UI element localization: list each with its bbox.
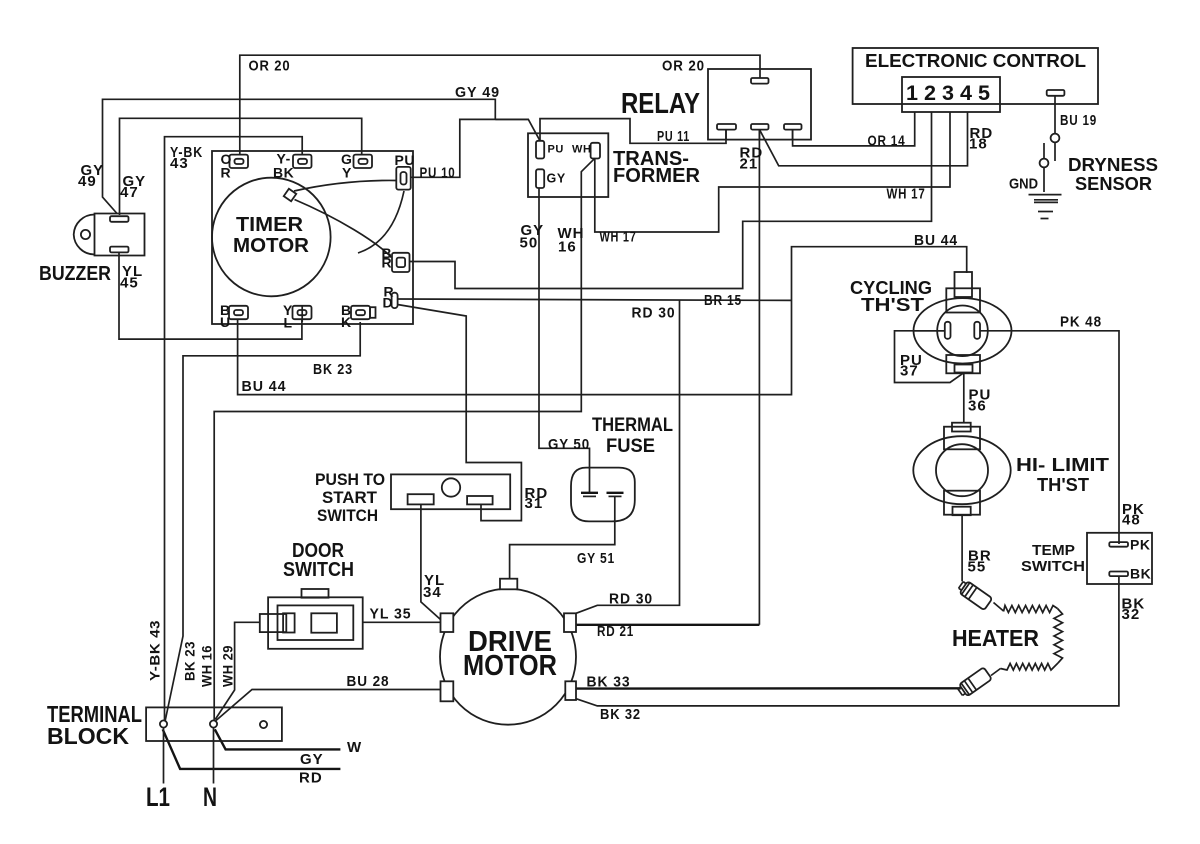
- svg-text:R: R: [382, 255, 393, 271]
- svg-text:GY: GY: [547, 172, 566, 186]
- svg-text:BR 15: BR 15: [704, 292, 742, 309]
- svg-text:RD 30: RD 30: [609, 591, 653, 608]
- svg-text:ELECTRONIC CONTROL: ELECTRONIC CONTROL: [865, 51, 1086, 71]
- svg-text:FUSE: FUSE: [606, 436, 655, 457]
- svg-text:PK 48: PK 48: [1060, 314, 1102, 331]
- svg-text:K: K: [341, 314, 352, 330]
- svg-text:BK 23: BK 23: [182, 641, 198, 681]
- svg-text:50: 50: [520, 235, 539, 252]
- svg-text:43: 43: [170, 155, 189, 172]
- svg-text:START: START: [322, 488, 378, 507]
- svg-text:1 2 3 4 5: 1 2 3 4 5: [906, 82, 990, 105]
- svg-text:47: 47: [120, 184, 139, 201]
- svg-text:BU 19: BU 19: [1060, 112, 1097, 129]
- svg-text:Y: Y: [342, 165, 352, 181]
- svg-text:D: D: [383, 295, 394, 311]
- svg-text:U: U: [220, 314, 231, 330]
- svg-text:SWITCH: SWITCH: [283, 559, 354, 581]
- svg-text:SWITCH: SWITCH: [1021, 558, 1085, 575]
- svg-text:18: 18: [969, 136, 988, 153]
- svg-text:PUSH TO: PUSH TO: [315, 470, 385, 489]
- svg-text:TH'ST: TH'ST: [1037, 475, 1089, 495]
- svg-text:37: 37: [900, 363, 919, 380]
- svg-text:W: W: [347, 739, 362, 756]
- svg-text:BK 23: BK 23: [313, 361, 353, 378]
- svg-text:RELAY: RELAY: [621, 88, 700, 120]
- svg-text:55: 55: [968, 559, 987, 576]
- svg-text:OR 20: OR 20: [662, 58, 705, 75]
- svg-text:MOTOR: MOTOR: [233, 235, 310, 257]
- svg-text:PU 11: PU 11: [657, 128, 690, 145]
- svg-text:GY 50: GY 50: [548, 436, 590, 453]
- svg-text:HEATER: HEATER: [952, 625, 1039, 651]
- svg-text:SENSOR: SENSOR: [1075, 174, 1152, 194]
- svg-text:WH 16: WH 16: [199, 645, 215, 687]
- svg-text:WH 17: WH 17: [600, 229, 637, 246]
- svg-text:WH 17: WH 17: [887, 186, 926, 203]
- svg-text:PU: PU: [395, 152, 415, 168]
- svg-text:OR 14: OR 14: [868, 132, 906, 149]
- svg-text:21: 21: [740, 156, 759, 173]
- svg-text:WH 29: WH 29: [220, 645, 236, 687]
- svg-text:BU 44: BU 44: [242, 378, 287, 395]
- svg-text:49: 49: [78, 173, 97, 190]
- svg-text:GY 49: GY 49: [455, 84, 500, 101]
- svg-text:16: 16: [558, 239, 577, 256]
- svg-text:34: 34: [423, 584, 442, 601]
- svg-text:L1: L1: [146, 782, 170, 812]
- svg-text:BLOCK: BLOCK: [47, 723, 129, 749]
- svg-text:PU: PU: [548, 144, 564, 156]
- svg-text:GY 51: GY 51: [577, 550, 615, 567]
- svg-text:31: 31: [525, 495, 544, 512]
- svg-text:BK: BK: [273, 165, 294, 181]
- svg-text:DRYNESS: DRYNESS: [1068, 155, 1158, 175]
- svg-text:Y-BK 43: Y-BK 43: [147, 620, 163, 681]
- svg-text:GND: GND: [1009, 176, 1038, 193]
- svg-text:THERMAL: THERMAL: [592, 415, 673, 436]
- svg-text:SWITCH: SWITCH: [317, 506, 378, 525]
- svg-text:BK: BK: [1130, 566, 1151, 582]
- svg-text:TIMER: TIMER: [236, 214, 304, 236]
- svg-text:R: R: [221, 165, 232, 181]
- svg-text:GY: GY: [300, 751, 324, 768]
- svg-text:BK 33: BK 33: [587, 674, 631, 691]
- svg-text:BU 28: BU 28: [347, 673, 390, 690]
- svg-text:L: L: [284, 315, 293, 331]
- svg-text:45: 45: [120, 275, 139, 292]
- svg-text:OR 20: OR 20: [249, 58, 291, 75]
- svg-text:RD 30: RD 30: [632, 305, 676, 322]
- svg-text:BK 32: BK 32: [600, 706, 641, 723]
- svg-text:HI- LIMIT: HI- LIMIT: [1016, 455, 1109, 475]
- svg-text:PK: PK: [1130, 537, 1150, 553]
- svg-text:BUZZER: BUZZER: [39, 263, 111, 285]
- svg-text:RD 21: RD 21: [597, 623, 634, 640]
- svg-text:N: N: [203, 782, 217, 812]
- svg-text:36: 36: [968, 398, 987, 415]
- svg-text:32: 32: [1122, 606, 1141, 623]
- svg-text:PU 10: PU 10: [420, 164, 456, 181]
- svg-text:FORMER: FORMER: [613, 165, 701, 187]
- svg-text:48: 48: [1122, 512, 1141, 529]
- svg-text:WH: WH: [572, 144, 592, 156]
- svg-text:TH'ST: TH'ST: [861, 295, 924, 315]
- svg-text:RD: RD: [299, 770, 323, 787]
- svg-text:MOTOR: MOTOR: [463, 650, 557, 682]
- svg-text:YL 35: YL 35: [370, 605, 412, 622]
- svg-text:TEMP: TEMP: [1032, 542, 1075, 559]
- svg-text:BU 44: BU 44: [914, 232, 958, 249]
